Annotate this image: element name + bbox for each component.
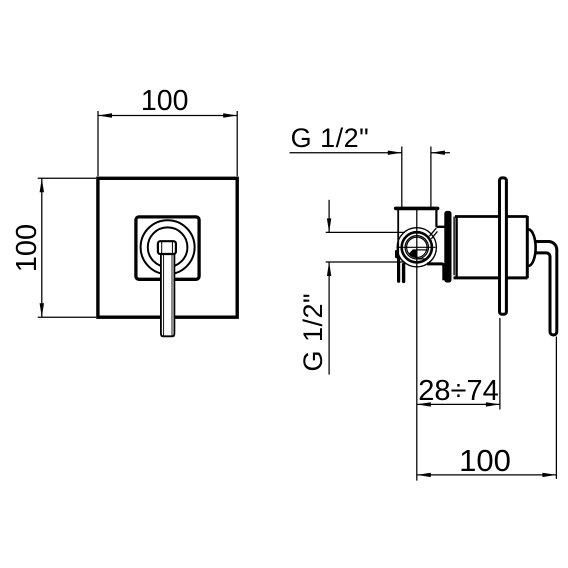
arrowhead left (bottom 100 dim) xyxy=(417,473,431,477)
cartridge sleeve right end xyxy=(526,216,529,278)
extension line from lever tip xyxy=(555,337,557,479)
arrowhead pointing right (G 1/2 top) xyxy=(388,151,402,155)
inlet port horizontal centerline xyxy=(399,246,436,248)
svg-text:G 1/2": G 1/2" xyxy=(291,123,370,153)
cartridge sleeve bottom edge xyxy=(454,276,528,279)
handle lever outline (side) xyxy=(534,242,557,336)
inlet port section wedge xyxy=(409,249,418,257)
valve body bottom edge xyxy=(427,264,444,280)
dimension line bottom 100 xyxy=(417,474,557,476)
gasket line xyxy=(453,217,455,276)
dimension line, left height xyxy=(41,178,43,317)
dimension line 28-74 xyxy=(417,403,500,405)
handle hub dome fill xyxy=(529,229,536,266)
extension line, top-left of square xyxy=(97,111,99,176)
arrowhead right (28-74 dim) xyxy=(486,402,500,406)
side outlet boss xyxy=(395,252,398,257)
wall plate seen from side xyxy=(500,178,507,314)
arrowhead left (28-74 dim) xyxy=(417,402,431,406)
svg-text:28÷74: 28÷74 xyxy=(418,375,498,407)
cartridge sleeve top edge xyxy=(455,215,528,218)
inlet port bore circle outer xyxy=(405,236,428,259)
knob left bevel line xyxy=(161,242,163,254)
front wall plate (square 100x100) xyxy=(98,178,237,317)
valve body top face bar xyxy=(396,207,438,211)
inlet port chord line upper xyxy=(417,249,427,251)
knob right bevel line xyxy=(171,242,173,254)
valve body neck step xyxy=(436,226,444,228)
svg-text:G 1/2": G 1/2" xyxy=(298,293,328,372)
svg-text:100: 100 xyxy=(141,85,189,117)
top port right wall / extension line xyxy=(430,147,432,208)
bottom port outer wall xyxy=(397,258,400,282)
arrowhead up (left height dim) xyxy=(40,178,44,192)
handle knob (front) xyxy=(158,241,176,254)
dimension line, top width xyxy=(98,115,237,117)
extension line, top-right of square xyxy=(236,111,238,176)
inlet port boss circle (thin outer) xyxy=(397,228,436,267)
cartridge sleeve left end xyxy=(455,216,457,277)
chamfer edge line 1 xyxy=(429,228,436,236)
inlet port chord line lower xyxy=(417,258,427,260)
mounting flange (solid) xyxy=(444,211,451,283)
extension line, left-top of square xyxy=(38,177,96,179)
dimension line upper segment (G 1/2 side) xyxy=(328,200,330,233)
arrowhead right (bottom 100 dim) xyxy=(542,473,556,477)
arrowhead left (top width dim) xyxy=(98,113,112,117)
chamfer edge line 2 xyxy=(431,231,437,238)
trim inner circle xyxy=(148,227,188,267)
dimension line lower segment (G 1/2 side) xyxy=(328,262,330,375)
extension line, port bottom diameter xyxy=(326,261,405,263)
inlet port bore circle inner xyxy=(407,237,427,257)
handle hub dome arc xyxy=(529,229,536,266)
escutcheon square xyxy=(136,217,199,279)
arrowhead right (top width dim) xyxy=(223,113,237,117)
leader line right segment (G 1/2 top) xyxy=(431,152,450,154)
handle rod left bevel line xyxy=(163,254,165,336)
handle rod outline (front) xyxy=(161,254,175,337)
extension line, left-bottom of square xyxy=(38,316,96,318)
extension line from inlet centerline xyxy=(416,210,418,481)
svg-text:100: 100 xyxy=(459,443,511,478)
top port left wall / extension line xyxy=(401,147,403,208)
bottom port inner wall xyxy=(402,265,405,282)
extension line, port top diameter xyxy=(326,231,405,233)
extension line from wall plate xyxy=(499,318,501,410)
arrowhead pointing down (G 1/2 side) xyxy=(327,218,331,232)
inlet port thread circle (bold) xyxy=(402,232,432,262)
handle rod right bevel line xyxy=(171,254,173,336)
valve body right edge xyxy=(435,208,437,227)
arrowhead pointing up (G 1/2 side) xyxy=(327,262,331,276)
svg-text:100: 100 xyxy=(11,224,43,272)
leader line left segment (G 1/2 top) xyxy=(290,152,402,154)
valve body left edge xyxy=(397,208,399,259)
trim outer circle xyxy=(141,220,195,274)
handle lever fill (side) xyxy=(534,242,557,336)
arrowhead pointing left (G 1/2 top) xyxy=(431,151,445,155)
arrowhead down (left height dim) xyxy=(40,303,44,317)
